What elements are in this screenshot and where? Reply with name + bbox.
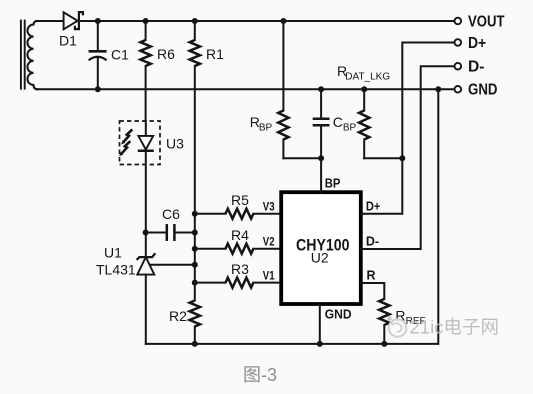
resistor R6 <box>140 21 150 121</box>
svg-text:R6: R6 <box>157 46 175 62</box>
resistor RBP <box>278 21 321 158</box>
resistor R1 <box>190 21 200 214</box>
svg-text:R4: R4 <box>231 227 249 243</box>
wire C6 right to R1 column <box>175 232 195 234</box>
shunt regulator U1 TL431 cathode bar <box>137 253 156 260</box>
node R4/V2 <box>192 246 198 252</box>
node RDAT top <box>361 86 367 92</box>
svg-text:DAT_LKG: DAT_LKG <box>345 72 390 83</box>
svg-text:GND: GND <box>468 82 498 99</box>
node C1 bottom <box>95 86 101 92</box>
node RREF bottom <box>381 341 387 347</box>
wire top rail VOUT net <box>36 20 64 22</box>
svg-text:R1: R1 <box>206 46 224 62</box>
svg-text:U3: U3 <box>166 136 184 152</box>
wire U1 anode to bottom rail <box>145 275 147 344</box>
node R6 top <box>143 18 149 24</box>
node D+ junction <box>399 155 405 161</box>
node RBP top <box>280 18 286 24</box>
label CBP <box>333 114 357 133</box>
resistor R5 <box>195 209 281 219</box>
node D1/C1 top <box>95 18 101 24</box>
resistor RREF <box>361 283 390 344</box>
watermark logo <box>387 316 406 337</box>
svg-text:VOUT: VOUT <box>468 13 505 30</box>
wire U1 ref to R1 column <box>150 264 195 266</box>
node U1 ref <box>192 262 198 268</box>
wire D- net <box>361 66 455 249</box>
IC U2 CHY100 body <box>281 192 361 304</box>
svg-text:D1: D1 <box>59 33 77 49</box>
terminal D- <box>455 59 485 76</box>
svg-text:V3: V3 <box>263 202 275 214</box>
svg-text:图-3: 图-3 <box>243 365 277 385</box>
svg-text:R2: R2 <box>169 308 187 324</box>
label RDAT_LKG <box>337 63 390 83</box>
svg-text:D+: D+ <box>366 200 381 214</box>
diode D1 (schottky) <box>64 12 83 29</box>
label RBP <box>250 114 273 133</box>
svg-text:U1: U1 <box>104 245 122 261</box>
resistor R3 <box>195 278 281 288</box>
svg-text:BP: BP <box>325 177 341 191</box>
svg-text:C6: C6 <box>162 206 180 222</box>
terminal GND <box>455 82 498 99</box>
wire bottom rail <box>146 89 439 344</box>
node GND riser <box>435 86 441 92</box>
terminal VOUT <box>455 13 505 30</box>
svg-text:R5: R5 <box>231 192 249 208</box>
svg-text:BP: BP <box>343 122 357 133</box>
svg-text:GND: GND <box>325 307 352 321</box>
svg-text:D-: D- <box>366 235 379 249</box>
node R1 top <box>192 18 198 24</box>
svg-text:R: R <box>367 269 376 283</box>
optocoupler U3 light arrows <box>119 130 132 157</box>
capacitor C6 <box>167 224 175 241</box>
svg-text:TL431: TL431 <box>96 262 136 278</box>
wire D1 cathode to C1 node <box>97 21 99 50</box>
wire BP pin <box>320 158 322 192</box>
transformer T1 core bars <box>21 20 25 90</box>
wire GND pin <box>319 304 321 344</box>
wire U3 cathode to U1 <box>145 233 147 258</box>
wire C1 to bottom rail <box>97 57 99 89</box>
node R3/V1 <box>192 280 198 286</box>
wire R1 column <box>194 214 196 301</box>
shunt regulator U1 TL431 triangle <box>137 257 154 275</box>
node GND pin bottom <box>317 341 323 347</box>
transformer T1 secondary winding <box>27 21 38 89</box>
svg-text:R3: R3 <box>231 261 249 277</box>
resistor RDAT_LKG <box>359 89 402 158</box>
capacitor C1 (polarized) <box>89 51 107 60</box>
svg-text:C1: C1 <box>111 47 129 63</box>
optocoupler U3 dashed box <box>120 121 161 165</box>
resistor R4 <box>195 244 281 254</box>
optocoupler U3 LED <box>138 121 154 233</box>
svg-text:BP: BP <box>259 122 273 133</box>
node BP junction <box>318 155 324 161</box>
svg-text:C: C <box>333 114 343 130</box>
resistor R2 <box>190 301 200 344</box>
label RREF <box>395 308 425 327</box>
svg-text:D+: D+ <box>468 35 486 52</box>
svg-text:U2: U2 <box>311 250 329 266</box>
capacitor CBP <box>313 89 330 158</box>
wire GND rail <box>36 88 455 90</box>
svg-text:21ic电子网: 21ic电子网 <box>410 317 499 338</box>
terminal D+ <box>455 35 487 52</box>
node C6 right <box>192 230 198 236</box>
wire D+ net <box>361 43 455 214</box>
node C6 left <box>143 230 149 236</box>
wire node C6 left <box>146 232 167 234</box>
node CBP top <box>318 86 324 92</box>
svg-text:D-: D- <box>468 59 485 76</box>
node R5/V3 <box>192 211 198 217</box>
svg-text:V1: V1 <box>263 271 275 283</box>
node R2 bottom <box>192 341 198 347</box>
svg-text:V2: V2 <box>263 237 275 249</box>
